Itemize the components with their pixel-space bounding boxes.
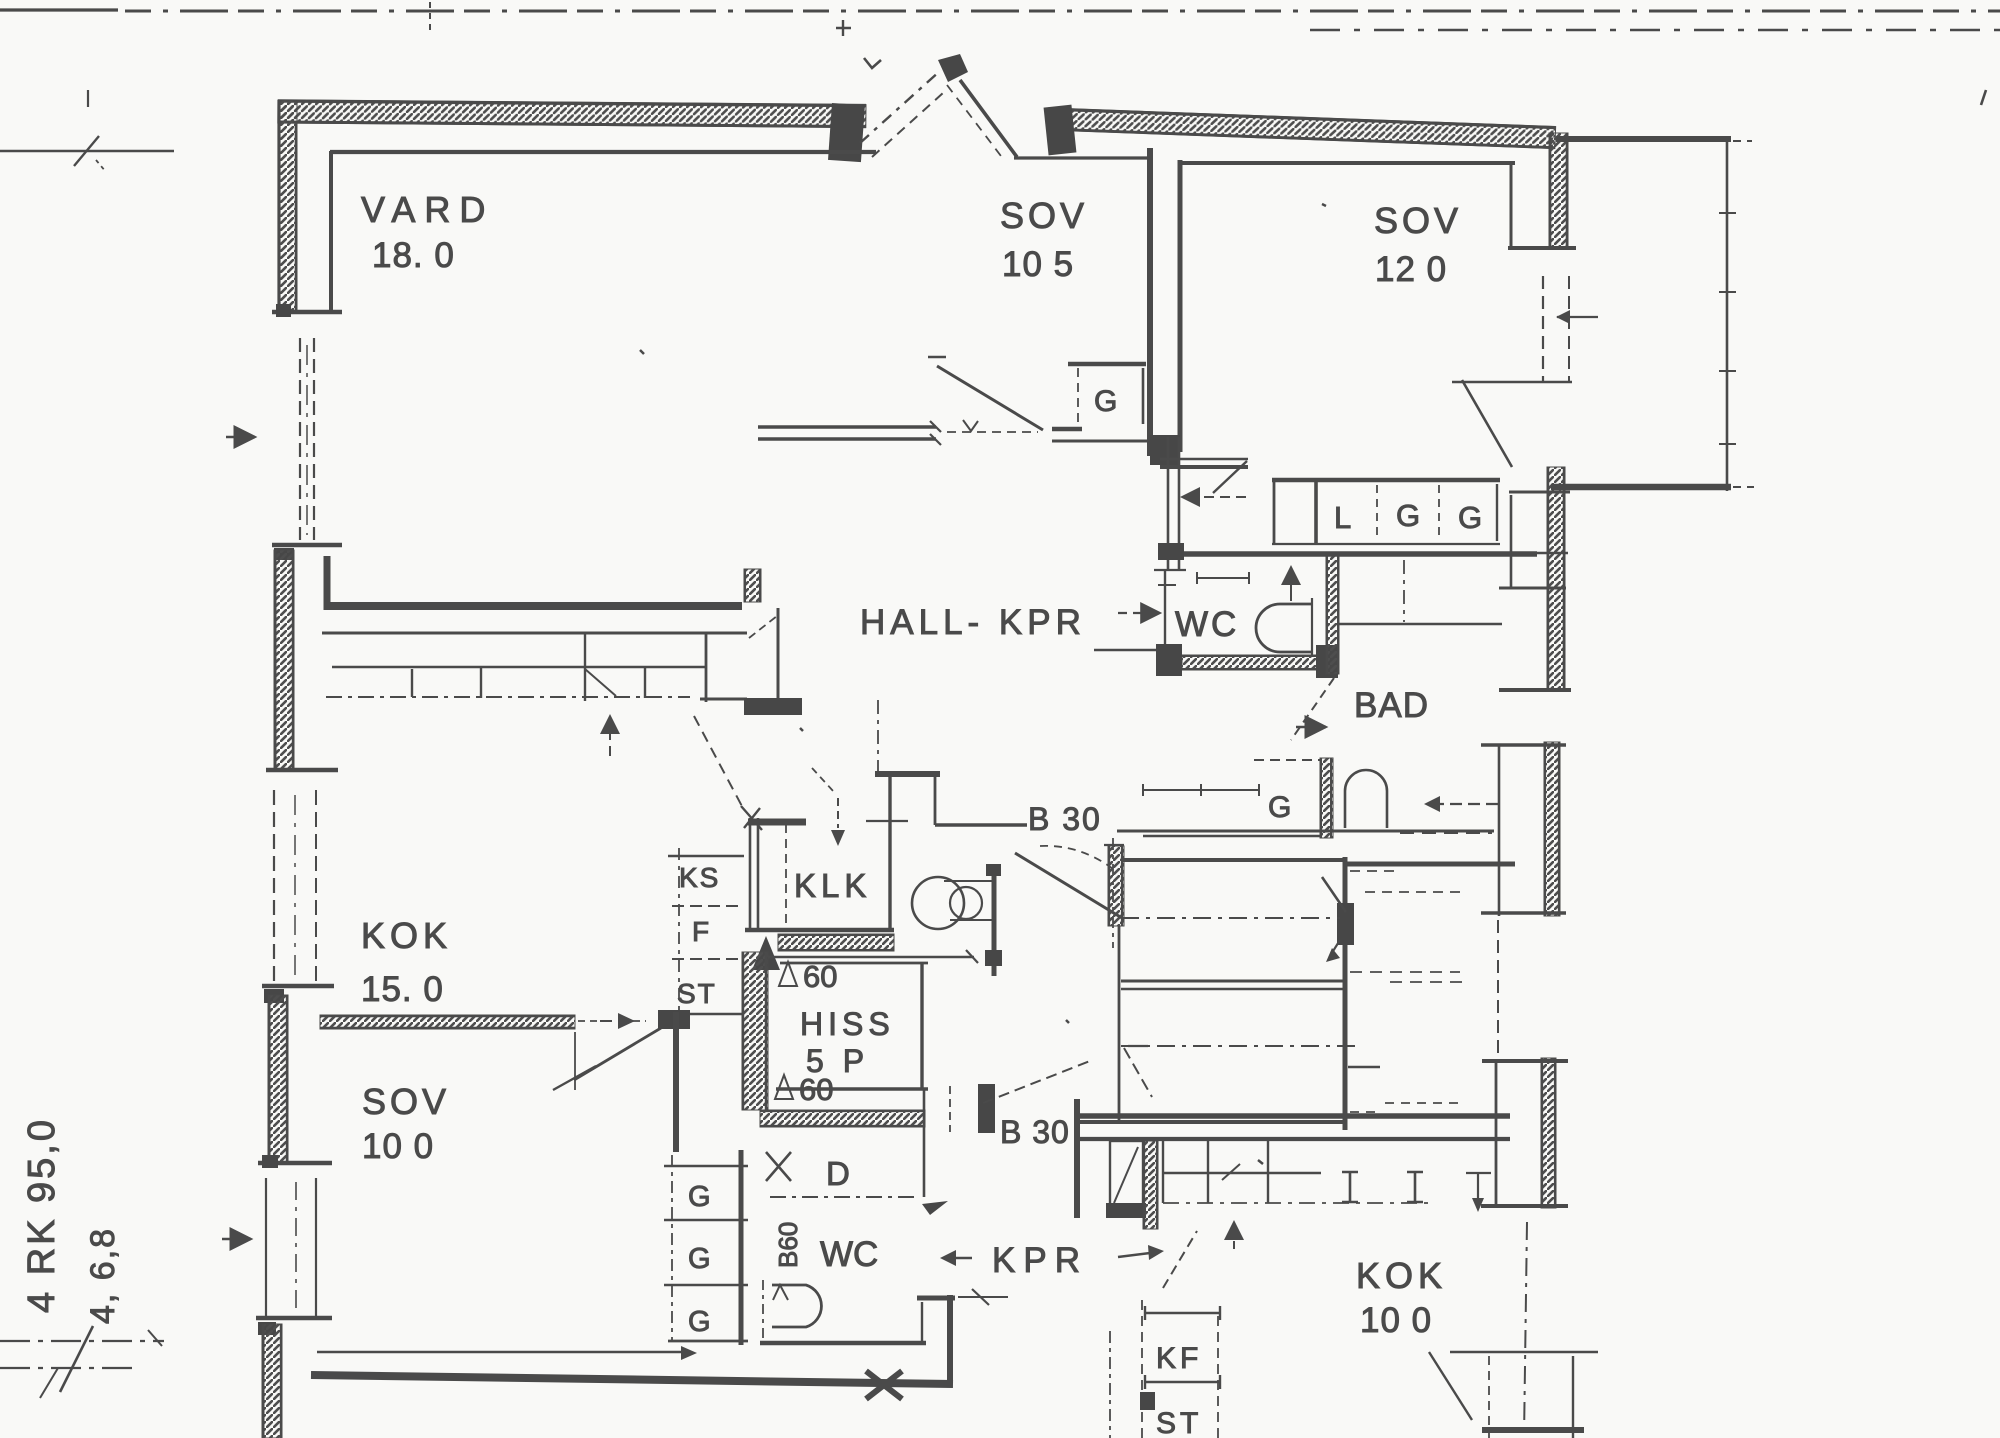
svg-text:HISS: HISS (800, 1006, 895, 1042)
svg-text:G: G (1094, 385, 1117, 418)
wall VARD bottom (south) (326, 602, 742, 610)
BAD door swing (1291, 678, 1334, 740)
outer wall top (hatched) VARD (278, 100, 866, 128)
west jamb of KOK10 door (1074, 1099, 1080, 1218)
door leaf KOK15 (574, 1028, 661, 1080)
closet diagonal (585, 669, 616, 696)
hatched bar right of jamb (1143, 1141, 1158, 1229)
svg-text:F: F (692, 916, 709, 947)
arrow up from toilet (1290, 567, 1292, 601)
hatched band WC south (1182, 655, 1322, 670)
washbasin circle (912, 877, 964, 929)
arrow down into KLK (837, 798, 839, 828)
window west VARD (299, 338, 301, 540)
cross tick at KLK corner (741, 806, 762, 830)
svg-text:KOK: KOK (1356, 1255, 1447, 1296)
stair west wall (hatched jamb + line) (1108, 846, 1124, 926)
east outer wall chunk B (hatched) (1547, 467, 1565, 690)
X junction blob on south wall (866, 1371, 902, 1399)
SOV10 interior south line with arrow (317, 1351, 682, 1354)
window west KOK15 (273, 790, 275, 985)
G column boxes (671, 1155, 673, 1341)
KPR/KOK10 north wall pair (1078, 1113, 1510, 1119)
SOV12 (1154, 133, 1754, 1438)
balcony south wall (1551, 484, 1731, 491)
wall cap tick y1163 (258, 1161, 332, 1166)
wall SOV105 south (double line) (758, 425, 936, 428)
wall cap tick y312 (272, 310, 342, 315)
wall end blob at balcony opening (828, 103, 865, 162)
balcony door leaf (1462, 380, 1512, 467)
door swing dashes to KLK (694, 716, 744, 810)
window east SOV12 (1542, 276, 1544, 383)
svg-text:SOV: SOV (1374, 200, 1462, 241)
svg-text:L: L (1334, 500, 1351, 535)
svg-text:ST: ST (677, 978, 717, 1009)
east outer wall chunk A (hatched) (1549, 133, 1568, 248)
WC left partition (1164, 570, 1166, 648)
dash divider G-column/WC (762, 1280, 764, 1342)
wall under cabinet row (1160, 551, 1537, 557)
wall between SOV105 and SOV12 (west line) (1147, 148, 1153, 456)
svg-text:HALL- KPR: HALL- KPR (860, 603, 1086, 642)
wardrobe closet along hall (322, 632, 747, 635)
arrow to WC (1118, 612, 1160, 614)
door SOV105 leaf (937, 366, 1043, 430)
window east lower (1497, 920, 1499, 1056)
interior wall line VARD top (330, 150, 876, 154)
hatched band below HISS (760, 1110, 925, 1127)
dimension tick right (1466, 1172, 1491, 1205)
outer wall left upper (hatched) VARD (278, 100, 297, 313)
svg-text:10 5: 10 5 (1002, 245, 1074, 284)
balcony door chevron peak (860, 70, 941, 143)
second dash row top right (1310, 29, 2000, 31)
dash-dot jamb line (1112, 838, 1114, 948)
line left of WC band (1094, 649, 1158, 651)
svg-text:SOV: SOV (362, 1081, 450, 1122)
window west SOV10 (265, 1178, 267, 1318)
divider wall KOK15/G-column (673, 1012, 679, 1152)
ST label below KF (1140, 1392, 1155, 1410)
svg-text:4, 6,8: 4, 6,8 (84, 1227, 122, 1324)
B30 door dash right of HISS (949, 1086, 951, 1132)
svg-text:G: G (1268, 791, 1291, 824)
svg-text:G: G (688, 1243, 711, 1275)
right margin apostrophe (1981, 90, 1986, 105)
wall stub left of VARD south wall (324, 556, 331, 610)
svg-text:WC: WC (1175, 605, 1239, 644)
building south wall (311, 1375, 953, 1384)
svg-text:60: 60 (803, 959, 837, 994)
door jamb box with diagonal (1110, 1141, 1143, 1209)
cabinet G in BAD: dimension line (1143, 784, 1259, 796)
svg-text:B 30: B 30 (1028, 801, 1102, 837)
svg-text:KPR: KPR (992, 1241, 1088, 1280)
wall right of basin (992, 864, 997, 976)
svg-text:B 30: B 30 (1000, 1114, 1070, 1150)
closet arrow up (609, 716, 611, 756)
landing top line (1117, 830, 1494, 833)
dash rows in KOK10 beside stair (1350, 870, 1396, 872)
door KOK15: dashes and arrow (578, 1020, 598, 1022)
interior wall line SOV12 east (1510, 163, 1513, 247)
stair treads (1121, 858, 1346, 862)
ST box (672, 958, 740, 960)
entry arrow west lower (222, 1238, 251, 1240)
svg-text:10 0: 10 0 (362, 1127, 434, 1166)
balcony top wall (1556, 136, 1731, 142)
junction blob at divider (658, 1010, 690, 1029)
svg-text:15. 0: 15. 0 (361, 970, 444, 1009)
SOV105 (758, 54, 1556, 497)
svg-text:G: G (1458, 500, 1482, 535)
G cabinet right hatched edge (1320, 758, 1333, 838)
wall cap tick y1318 (256, 1316, 332, 1321)
STAIRS (1078, 846, 1462, 1130)
KF box (1145, 1306, 1220, 1320)
door swing arc in BAD (1345, 770, 1387, 828)
wall end blob left of SOV band (1044, 105, 1077, 156)
svg-text:SOV: SOV (1000, 195, 1088, 236)
cabinet G in SOV105 (1068, 362, 1146, 367)
svg-text:VARD: VARD (361, 189, 494, 230)
wall blob right (1316, 645, 1338, 678)
interior wall line SOV105 top (1014, 156, 1150, 159)
dash-dot line to page bottom (1524, 1222, 1527, 1438)
svg-text:G: G (688, 1306, 711, 1338)
HISS labels (779, 962, 797, 986)
WC south wall (760, 1341, 926, 1346)
door threshold blob (744, 698, 802, 715)
D room east wall (923, 1089, 926, 1197)
svg-text:KLK: KLK (794, 867, 871, 904)
F box (672, 905, 740, 907)
wall KOK15/SOV10 (hatched band) (320, 1015, 575, 1029)
east outer wall chunk C (hatched) (1544, 742, 1560, 916)
east outer wall chunk D (hatched) (1541, 1058, 1556, 1208)
CORE (311, 848, 1197, 1399)
tiny v arrow near balcony (864, 58, 881, 68)
dark triangle blob at KS column (752, 936, 780, 970)
door to SOV12 (bottom) (1160, 458, 1248, 461)
stray dots (640, 204, 1326, 1164)
arrow west into BAD (1440, 803, 1498, 805)
line under hatch to basin wall (768, 956, 974, 958)
interior wall line SOV12 top (1180, 161, 1515, 165)
HISS west wall (hatched) (742, 952, 768, 1110)
balcony dash extensions (1733, 140, 1752, 142)
HALL (741, 603, 1124, 976)
sink symbol (1342, 1172, 1358, 1202)
svg-text:4 RK 95,0: 4 RK 95,0 (21, 1117, 63, 1313)
D room south dash-dot with arrow blob (770, 1196, 916, 1198)
svg-text:KOK: KOK (361, 915, 452, 956)
arrow up into counter (1233, 1222, 1235, 1249)
stair door leaf B30 (1015, 853, 1122, 918)
outer wall left bottom (hatched) (262, 1324, 282, 1438)
outer wall left (hatched) beside SOV10 (268, 995, 288, 1163)
svg-text:G: G (1396, 498, 1420, 533)
dimension mark inside WC (1197, 572, 1249, 584)
wall piece left of cabinets (1167, 437, 1170, 570)
balcony door tick (1452, 381, 1572, 384)
window arrow (1557, 316, 1598, 318)
outer wall left mid (hatched) (274, 550, 294, 770)
stair direction slash lower (1124, 1048, 1152, 1097)
wall segment right of door (1052, 427, 1082, 432)
KOK10 (1077, 1099, 1598, 1438)
bathtub bottom line (1338, 623, 1502, 626)
svg-text:12 0: 12 0 (1375, 250, 1447, 289)
svg-text:18. 0: 18. 0 (372, 236, 455, 275)
cap tick (1508, 246, 1576, 250)
toilet lower WC (772, 1285, 821, 1327)
closet KLK walls (749, 818, 752, 932)
svg-text:D: D (826, 1155, 850, 1192)
balcony east wall (1726, 141, 1729, 491)
svg-text:G: G (688, 1181, 711, 1213)
svg-text:10 0: 10 0 (1360, 1301, 1432, 1340)
south kitchen window lines (1450, 1351, 1598, 1354)
svg-text:KS: KS (679, 862, 720, 893)
hatched column WC/BAD (1326, 556, 1339, 674)
svg-text:BAD: BAD (1354, 686, 1429, 725)
svg-text:B60: B60 (773, 1222, 803, 1268)
BAD south wall (1400, 832, 1492, 834)
wall cap tick y985 with blob (262, 984, 334, 989)
cross mark top center (836, 20, 851, 36)
svg-text:60: 60 (799, 1072, 833, 1107)
section cut dash-dot marks bottom left (0, 1340, 164, 1342)
interior wall line VARD left (329, 151, 333, 313)
hatched wall below KLK (778, 934, 894, 951)
HISS box (780, 962, 928, 965)
cabinet row L G G (1272, 478, 1500, 483)
junction blob (1150, 435, 1180, 465)
hatched stub above wall (744, 569, 761, 602)
closet return wall (700, 698, 747, 701)
outer wall top (hatched) SOV (1047, 108, 1555, 149)
VARD (222, 100, 876, 1438)
stair east wall (1343, 857, 1348, 1130)
stair direction slash upper (1322, 877, 1346, 912)
WCBAD (1094, 556, 1515, 864)
wall cap tick y545 (272, 543, 342, 548)
svg-text:ST: ST (1156, 1407, 1202, 1438)
svg-text:WC: WC (820, 1235, 878, 1274)
left margin tick (87, 90, 89, 107)
wall riser right (947, 1295, 953, 1384)
kitchen counter KOK10 (1162, 1139, 1164, 1203)
step wall above KLK (875, 771, 940, 777)
wall cap tick y770 (266, 768, 338, 773)
wall between SOV105 and SOV12 (east line) (1178, 160, 1183, 452)
wall blob left (1156, 644, 1182, 676)
page top dash-dot border line (0, 8, 118, 11)
entry arrow west upper (226, 436, 255, 438)
WC east wall (921, 1302, 923, 1343)
KS box (668, 855, 744, 858)
svg-text:KF: KF (1156, 1342, 1202, 1375)
toilet upper WC (1256, 604, 1312, 652)
left margin line with slash (0, 150, 174, 152)
dash-dot column line up from KLK (877, 700, 879, 772)
